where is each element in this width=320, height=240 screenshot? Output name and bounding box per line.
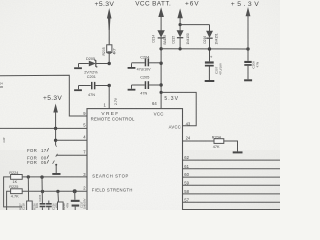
wire pin 61: [183, 168, 281, 170]
ground: [128, 89, 136, 91]
wire +5.3V rail: [161, 48, 248, 50]
wire pin 2 FIELD STRENGTH: [22, 190, 87, 192]
ground: [128, 67, 136, 69]
ground: [205, 80, 215, 82]
wire pin 3 SEARCH STOP: [22, 176, 87, 178]
capacitor C217 1N/100V: [74, 191, 76, 200]
power arrow +5.3V: [246, 7, 251, 16]
wire: [96, 63, 109, 65]
diode D216 1N4151: [206, 31, 213, 38]
node junction: [41, 190, 44, 193]
wire: [108, 18, 110, 45]
ground: [74, 89, 82, 91]
resistor R205: [107, 45, 112, 53]
wire: [108, 53, 110, 64]
node junction: [40, 175, 43, 178]
wire pin 7: [56, 154, 58, 157]
power arrow +6V: [177, 8, 182, 18]
wire VCC line down to IC pin 64: [160, 38, 162, 109]
wire: [179, 17, 181, 31]
wire branch to D216: [180, 24, 209, 26]
wire pin 9 net: [0, 75, 87, 116]
power arrow +5.3V: [107, 8, 112, 19]
wire R224 left loop: [4, 177, 22, 207]
AVCC loop wire: [161, 92, 196, 125]
capacitor C205 47N: [131, 85, 133, 89]
wire: [247, 15, 249, 49]
wire pin 1: [108, 86, 110, 109]
ground strap: [55, 164, 57, 166]
node junction: [179, 23, 182, 26]
node junction dots on VCC line: [159, 47, 162, 50]
wire: [179, 38, 181, 49]
zener diode D205 2V7/2%: [89, 61, 96, 67]
capacitor C204 1U/10V: [131, 63, 133, 67]
wire pin 57: [183, 201, 281, 203]
wire pin 60: [183, 176, 281, 178]
wire pin 62: [183, 159, 281, 161]
wire: [160, 16, 162, 31]
paper noise overlay: [0, 0, 1, 1]
wire: [79, 63, 89, 65]
capacitor C201: [78, 86, 80, 90]
ground: [233, 151, 243, 153]
wire pin 59: [183, 184, 281, 186]
node junction: [27, 175, 30, 178]
ground: [244, 79, 252, 81]
wire pin 56: [183, 209, 281, 211]
wire pin 4: [56, 139, 87, 141]
power arrow +5.3V left: [53, 104, 58, 113]
resistor R227: [57, 191, 60, 202]
node junction: [73, 189, 77, 193]
capacitor C215: [41, 177, 43, 203]
power arrow VCC BATT: [158, 7, 164, 17]
diode D214 BA185: [157, 30, 164, 37]
resistor R226: [27, 177, 29, 201]
diode D215 1N4150: [177, 30, 184, 37]
node junction: [108, 62, 111, 65]
node junction: [56, 190, 59, 193]
wire pin 5: [0, 127, 87, 129]
capacitor C216: [48, 201, 50, 204]
wire pin 58: [183, 193, 281, 195]
wire R225 left drop: [7, 191, 11, 210]
op IC box: [87, 109, 183, 211]
pin 24 / resistor R204 47K: [183, 140, 215, 142]
capacitor C206 47N: [247, 49, 249, 61]
ground: [78, 64, 80, 68]
wire strap column: [55, 128, 57, 145]
